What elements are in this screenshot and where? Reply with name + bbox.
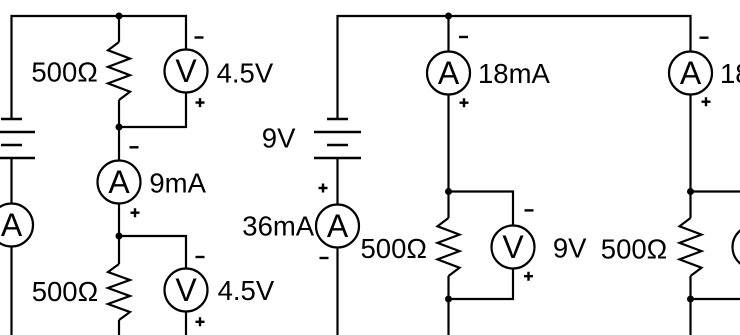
svg-text:500Ω: 500Ω xyxy=(601,233,667,264)
svg-text:V: V xyxy=(175,53,197,89)
svg-text:4.5V: 4.5V xyxy=(218,275,275,306)
svg-text:9mA: 9mA xyxy=(149,168,206,199)
svg-text:36mA: 36mA xyxy=(242,211,314,242)
svg-text:V: V xyxy=(175,272,197,308)
svg-text:500Ω: 500Ω xyxy=(361,233,427,264)
svg-text:18mA: 18mA xyxy=(478,58,550,89)
svg-text:A: A xyxy=(327,208,349,244)
svg-text:500Ω: 500Ω xyxy=(32,276,98,307)
svg-text:18: 18 xyxy=(720,58,740,89)
svg-text:500Ω: 500Ω xyxy=(31,57,97,88)
svg-text:A: A xyxy=(1,207,23,243)
svg-text:4.5V: 4.5V xyxy=(217,58,274,89)
svg-text:9V: 9V xyxy=(262,123,296,154)
svg-text:A: A xyxy=(680,55,702,91)
svg-text:A: A xyxy=(108,164,130,200)
svg-text:A: A xyxy=(438,55,460,91)
svg-text:V: V xyxy=(502,229,524,265)
svg-text:9V: 9V xyxy=(553,233,587,264)
